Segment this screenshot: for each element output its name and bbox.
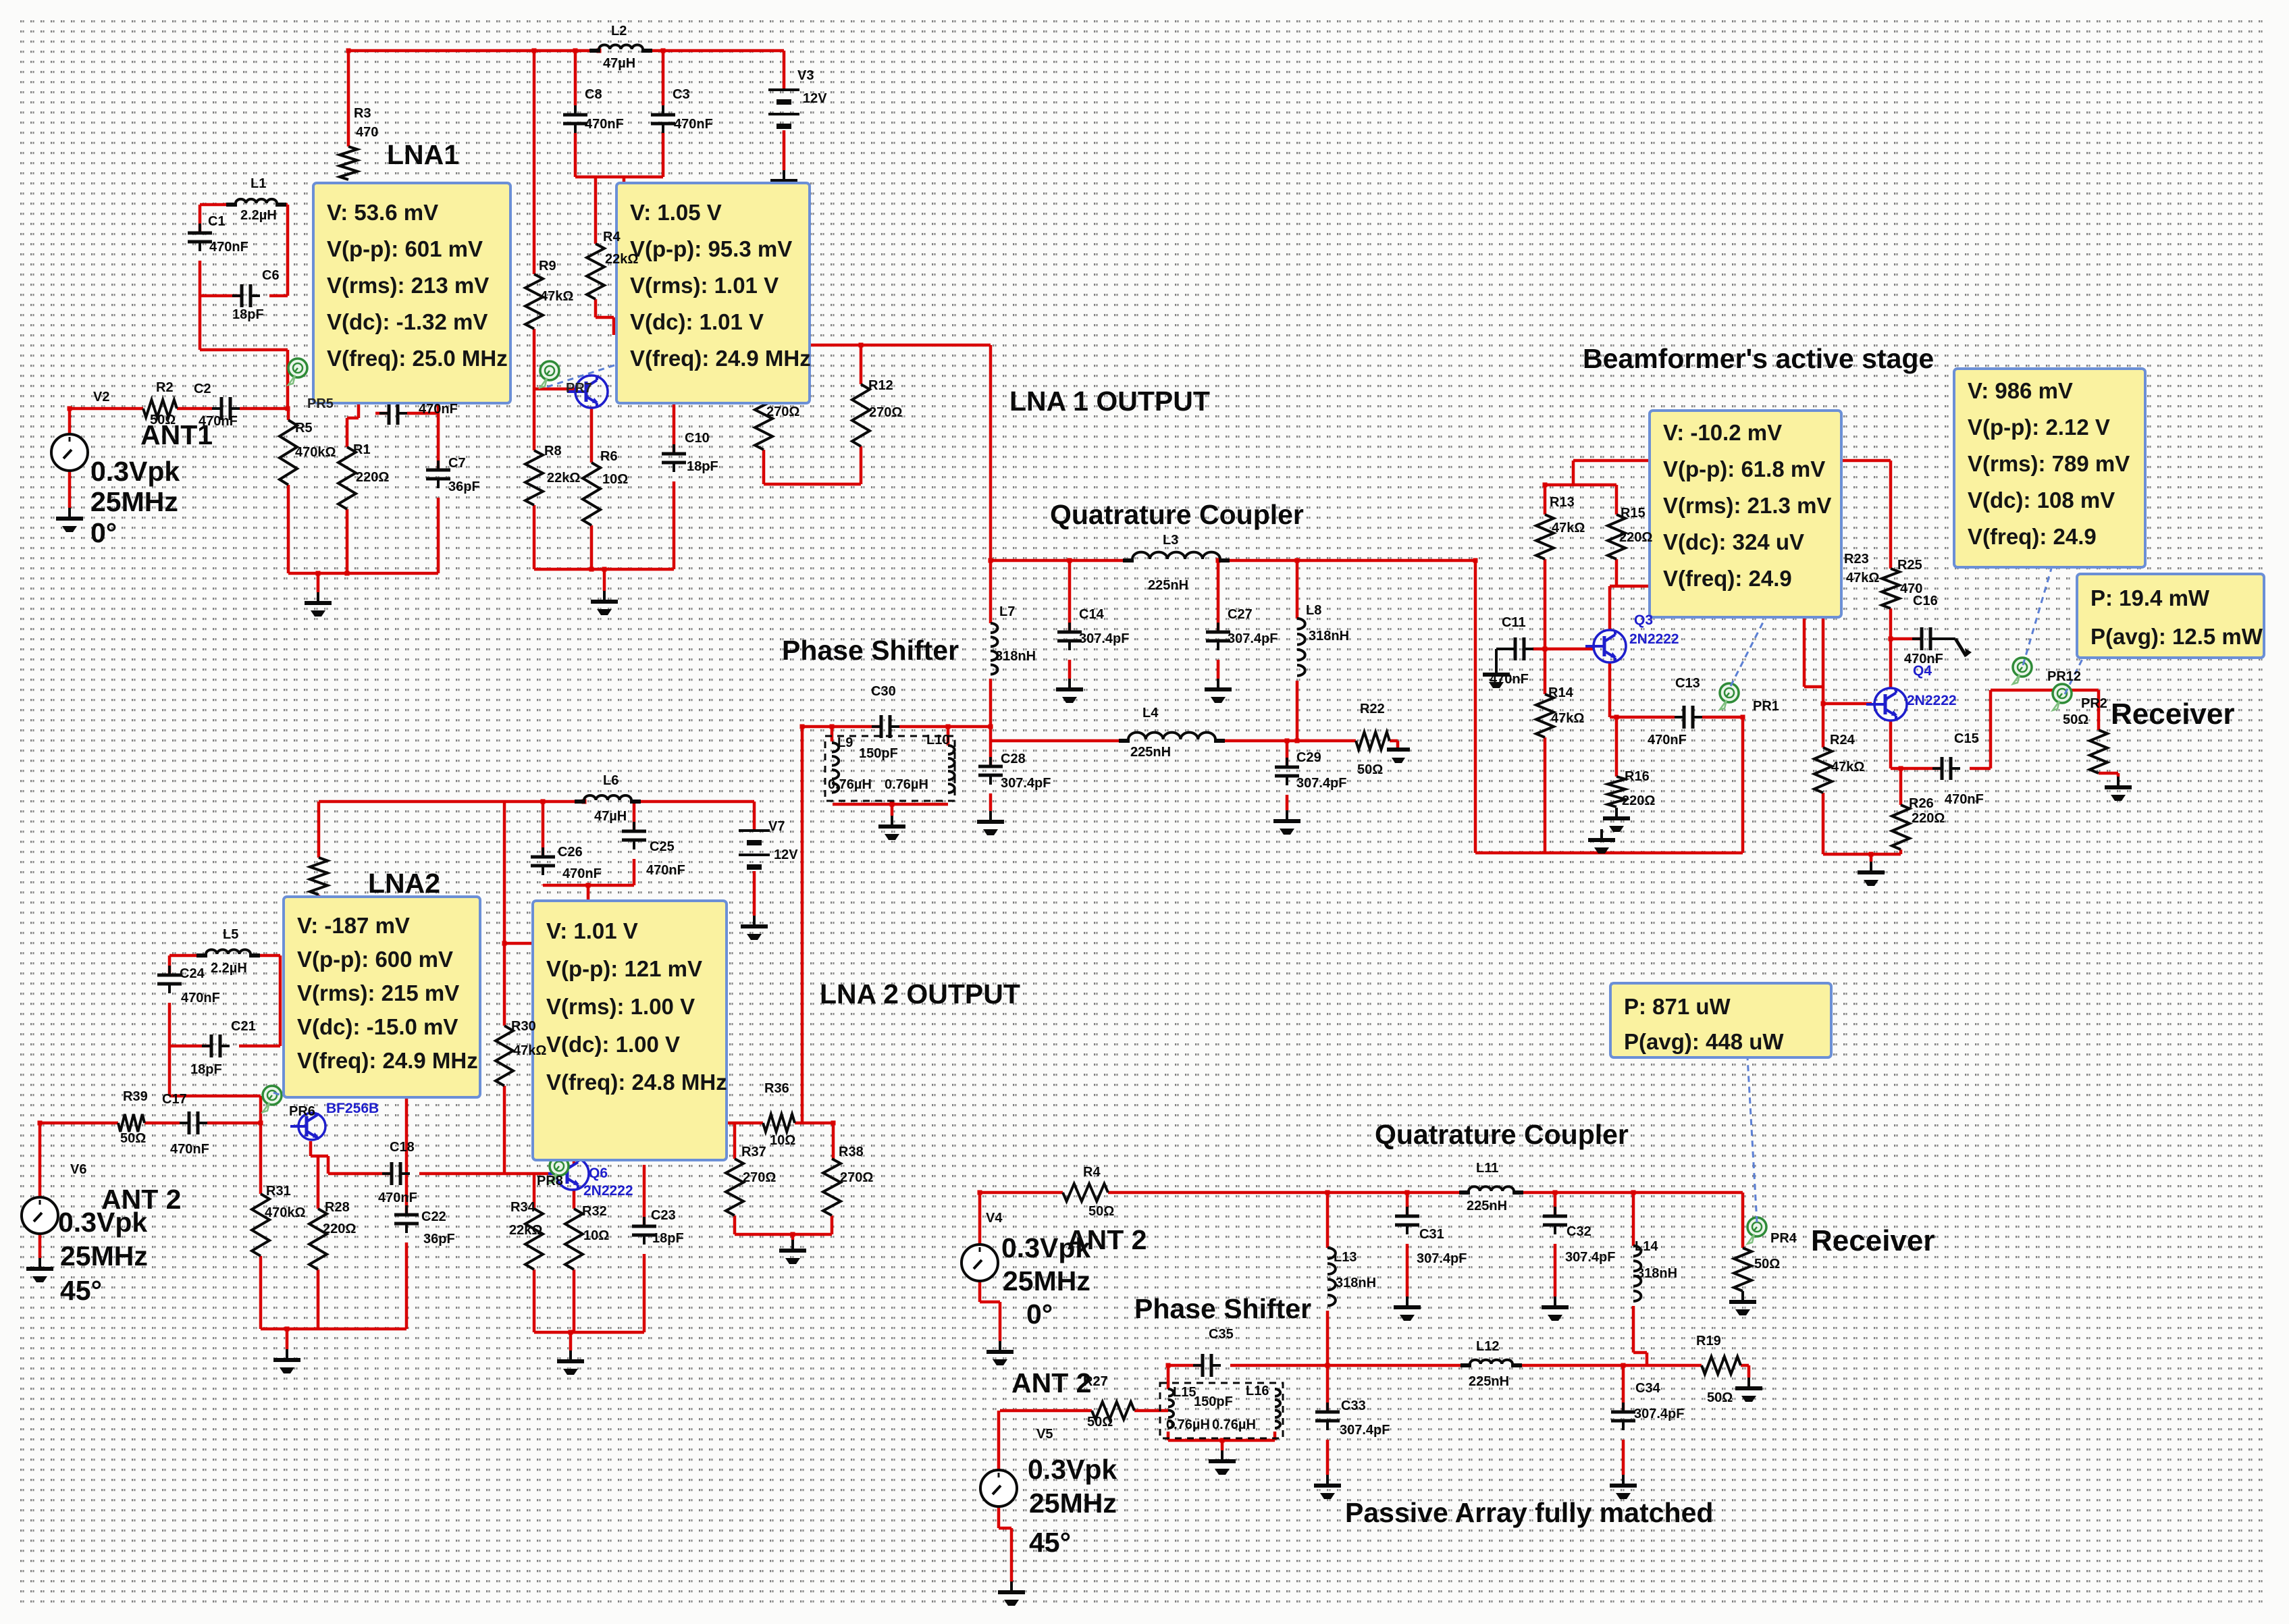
svg-text:R30: R30 [511, 1019, 536, 1034]
svg-text:PR1: PR1 [1753, 699, 1779, 714]
svg-text:Q3: Q3 [1634, 612, 1653, 628]
svg-text:V(dc): 1.00 V: V(dc): 1.00 V [546, 1032, 680, 1057]
svg-text:Phase Shifter: Phase Shifter [782, 635, 959, 666]
svg-text:0.3Vpk: 0.3Vpk [90, 456, 180, 487]
svg-text:25MHz: 25MHz [1003, 1265, 1090, 1296]
svg-text:V7: V7 [768, 819, 785, 834]
svg-text:V: 986 mV: V: 986 mV [1968, 378, 2073, 403]
svg-text:10Ω: 10Ω [770, 1133, 795, 1148]
svg-text:L8: L8 [1306, 603, 1321, 618]
svg-text:C16: C16 [1913, 594, 1938, 608]
svg-text:307.4pF: 307.4pF [1001, 776, 1051, 791]
svg-text:225nH: 225nH [1148, 578, 1188, 593]
svg-text:R5: R5 [295, 421, 313, 436]
svg-text:50Ω: 50Ω [1754, 1257, 1780, 1272]
svg-text:C32: C32 [1567, 1224, 1591, 1239]
svg-text:V: 1.05 V: V: 1.05 V [630, 200, 722, 225]
svg-text:50Ω: 50Ω [150, 413, 176, 427]
svg-text:470nF: 470nF [1648, 733, 1687, 748]
svg-text:C17: C17 [162, 1092, 187, 1107]
svg-text:307.4pF: 307.4pF [1565, 1250, 1615, 1265]
svg-text:22kΩ: 22kΩ [509, 1223, 542, 1238]
svg-text:V(dc): 1.01 V: V(dc): 1.01 V [630, 309, 764, 334]
svg-text:V(p-p): 601 mV: V(p-p): 601 mV [327, 236, 483, 261]
svg-text:12V: 12V [803, 91, 827, 106]
svg-text:150pF: 150pF [859, 746, 898, 761]
svg-text:318nH: 318nH [995, 649, 1036, 664]
svg-text:220Ω: 220Ω [323, 1222, 356, 1236]
svg-text:Beamformer's active stage: Beamformer's active stage [1583, 343, 1934, 374]
svg-text:22kΩ: 22kΩ [547, 471, 580, 486]
svg-text:150pF: 150pF [1194, 1394, 1233, 1409]
svg-text:470nF: 470nF [562, 866, 602, 881]
svg-text:Quatrature Coupler: Quatrature Coupler [1050, 499, 1304, 530]
svg-text:47kΩ: 47kΩ [1552, 521, 1585, 535]
svg-text:47kΩ: 47kΩ [1831, 760, 1864, 775]
svg-text:L2: L2 [611, 24, 627, 38]
svg-text:R24: R24 [1830, 733, 1856, 748]
svg-text:V5: V5 [1036, 1427, 1053, 1442]
svg-text:C33: C33 [1341, 1398, 1366, 1413]
svg-text:0.3Vpk: 0.3Vpk [58, 1207, 147, 1238]
svg-text:V(freq): 24.9 MHz: V(freq): 24.9 MHz [630, 346, 811, 371]
svg-text:R1: R1 [353, 442, 371, 457]
svg-text:V: 53.6 mV: V: 53.6 mV [327, 200, 438, 225]
svg-text:R34: R34 [510, 1200, 536, 1215]
svg-text:2.2µH: 2.2µH [240, 208, 277, 223]
svg-text:307.4pF: 307.4pF [1417, 1251, 1467, 1266]
svg-text:C24: C24 [180, 966, 205, 981]
svg-text:C1: C1 [208, 214, 226, 229]
svg-text:307.4pF: 307.4pF [1340, 1423, 1390, 1438]
svg-text:V(rms): 1.01 V: V(rms): 1.01 V [630, 273, 779, 298]
svg-text:318nH: 318nH [1309, 629, 1349, 644]
svg-text:C11: C11 [1502, 615, 1526, 630]
svg-text:R14: R14 [1548, 685, 1574, 700]
svg-text:C34: C34 [1635, 1381, 1661, 1396]
svg-text:0.76µH: 0.76µH [828, 777, 872, 792]
svg-text:12V: 12V [774, 847, 798, 862]
svg-text:Passive Array fully matched: Passive Array fully matched [1345, 1497, 1713, 1528]
svg-text:0.76µH: 0.76µH [1166, 1417, 1210, 1432]
svg-text:V(freq): 25.0 MHz: V(freq): 25.0 MHz [327, 346, 508, 371]
svg-text:C30: C30 [871, 684, 896, 699]
svg-text:25MHz: 25MHz [60, 1240, 148, 1272]
svg-text:36pF: 36pF [423, 1232, 455, 1247]
svg-text:L9: L9 [837, 735, 853, 750]
svg-text:V(rms): 21.3 mV: V(rms): 21.3 mV [1663, 493, 1831, 518]
svg-text:ANT 2: ANT 2 [1011, 1367, 1091, 1398]
svg-text:LNA 2 OUTPUT: LNA 2 OUTPUT [820, 978, 1020, 1010]
svg-text:225nH: 225nH [1130, 745, 1171, 760]
svg-text:470: 470 [356, 125, 378, 140]
svg-text:L1: L1 [251, 176, 266, 191]
svg-text:25MHz: 25MHz [90, 486, 178, 517]
svg-text:220Ω: 220Ω [1912, 811, 1945, 826]
svg-text:0°: 0° [90, 517, 117, 548]
svg-text:V(rms): 213 mV: V(rms): 213 mV [327, 273, 489, 298]
svg-text:L10: L10 [926, 733, 949, 748]
svg-text:BF256B: BF256B [326, 1101, 379, 1116]
svg-text:270Ω: 270Ω [766, 404, 799, 419]
svg-text:PR5: PR5 [307, 396, 334, 411]
svg-text:47µH: 47µH [594, 809, 627, 824]
svg-text:V(p-p): 61.8 mV: V(p-p): 61.8 mV [1663, 456, 1825, 481]
svg-text:0°: 0° [1026, 1299, 1053, 1330]
svg-text:307.4pF: 307.4pF [1296, 776, 1346, 791]
svg-text:307.4pF: 307.4pF [1228, 631, 1278, 646]
svg-text:2N2222: 2N2222 [583, 1183, 633, 1199]
svg-text:470nF: 470nF [646, 863, 685, 878]
svg-text:270Ω: 270Ω [869, 405, 902, 420]
svg-text:R15: R15 [1621, 506, 1646, 521]
svg-text:470nF: 470nF [674, 117, 713, 132]
svg-text:P: 19.4 mW: P: 19.4 mW [2090, 585, 2210, 610]
svg-text:318nH: 318nH [1637, 1266, 1677, 1281]
svg-text:R23: R23 [1844, 552, 1869, 567]
svg-text:C23: C23 [651, 1208, 676, 1223]
svg-text:V: 1.01 V: V: 1.01 V [546, 918, 638, 943]
svg-text:PR6: PR6 [289, 1104, 315, 1119]
svg-text:R36: R36 [764, 1081, 789, 1096]
svg-text:L4: L4 [1142, 706, 1159, 721]
svg-text:L16: L16 [1246, 1384, 1269, 1398]
svg-text:10Ω: 10Ω [583, 1228, 609, 1243]
svg-text:V(p-p): 2.12 V: V(p-p): 2.12 V [1968, 415, 2110, 440]
svg-text:R3: R3 [354, 106, 371, 121]
svg-text:V(dc): -1.32 mV: V(dc): -1.32 mV [327, 309, 488, 334]
svg-text:50Ω: 50Ω [1088, 1204, 1114, 1219]
svg-text:270Ω: 270Ω [743, 1170, 776, 1185]
svg-text:47kΩ: 47kΩ [1846, 571, 1879, 585]
svg-text:470nF: 470nF [1945, 792, 1984, 807]
svg-text:18pF: 18pF [190, 1062, 222, 1077]
svg-text:50Ω: 50Ω [1087, 1415, 1113, 1430]
svg-text:R16: R16 [1625, 769, 1650, 784]
svg-text:V(dc): 108 mV: V(dc): 108 mV [1968, 488, 2115, 513]
svg-text:47µH: 47µH [603, 56, 635, 71]
svg-text:47kΩ: 47kΩ [540, 289, 573, 304]
svg-text:C25: C25 [650, 839, 675, 854]
svg-text:50Ω: 50Ω [2063, 712, 2088, 727]
svg-text:PR12: PR12 [2047, 669, 2081, 684]
svg-text:R22: R22 [1360, 702, 1385, 716]
svg-text:C7: C7 [448, 456, 466, 471]
svg-text:Q6: Q6 [589, 1165, 608, 1181]
svg-text:C15: C15 [1954, 731, 1979, 746]
svg-text:220Ω: 220Ω [356, 470, 389, 485]
svg-text:18pF: 18pF [232, 307, 264, 322]
svg-text:45°: 45° [1029, 1527, 1071, 1558]
svg-text:C13: C13 [1675, 676, 1700, 691]
svg-text:47kΩ: 47kΩ [1551, 711, 1584, 726]
svg-text:V4: V4 [986, 1211, 1003, 1226]
svg-text:50Ω: 50Ω [1357, 762, 1383, 777]
svg-text:PR7: PR7 [566, 381, 592, 396]
svg-text:2N2222: 2N2222 [1629, 631, 1679, 647]
svg-text:Quatrature Coupler: Quatrature Coupler [1375, 1119, 1629, 1150]
svg-text:C22: C22 [421, 1209, 446, 1224]
svg-text:V(freq): 24.8 MHz: V(freq): 24.8 MHz [546, 1070, 727, 1095]
svg-text:V(dc): -15.0 mV: V(dc): -15.0 mV [297, 1014, 458, 1039]
svg-text:R12: R12 [868, 378, 893, 393]
svg-text:225nH: 225nH [1467, 1199, 1507, 1213]
svg-text:V(p-p): 95.3 mV: V(p-p): 95.3 mV [630, 236, 792, 261]
svg-text:470nF: 470nF [585, 117, 624, 132]
svg-text:0.3Vpk: 0.3Vpk [1028, 1454, 1117, 1485]
svg-text:47kΩ: 47kΩ [513, 1043, 546, 1058]
svg-text:R28: R28 [325, 1200, 350, 1215]
svg-text:C3: C3 [673, 87, 690, 102]
svg-text:Receiver: Receiver [2111, 698, 2234, 731]
svg-text:Q4: Q4 [1913, 663, 1932, 679]
svg-text:R4: R4 [603, 230, 621, 244]
svg-text:R39: R39 [123, 1089, 148, 1104]
svg-text:V(p-p): 600 mV: V(p-p): 600 mV [297, 947, 453, 972]
svg-text:V(p-p): 121 mV: V(p-p): 121 mV [546, 956, 702, 981]
svg-text:R25: R25 [1897, 558, 1922, 573]
svg-text:318nH: 318nH [1336, 1276, 1376, 1290]
svg-text:470nF: 470nF [419, 402, 458, 417]
svg-text:L13: L13 [1334, 1250, 1357, 1265]
svg-text:R2: R2 [156, 380, 174, 395]
svg-text:0.3Vpk: 0.3Vpk [1001, 1232, 1090, 1263]
svg-text:C21: C21 [231, 1019, 256, 1034]
svg-text:C28: C28 [1001, 752, 1026, 766]
svg-text:C10: C10 [685, 431, 710, 446]
svg-text:PR8: PR8 [537, 1174, 563, 1188]
svg-text:R13: R13 [1550, 495, 1575, 510]
svg-text:2.2µH: 2.2µH [211, 961, 247, 976]
svg-text:470kΩ: 470kΩ [295, 445, 336, 460]
svg-text:LNA 1 OUTPUT: LNA 1 OUTPUT [1009, 386, 1210, 417]
svg-text:L12: L12 [1476, 1339, 1499, 1354]
svg-text:V(dc): 324 uV: V(dc): 324 uV [1663, 529, 1804, 554]
svg-text:50Ω: 50Ω [120, 1131, 146, 1146]
svg-text:220Ω: 220Ω [1619, 530, 1652, 545]
svg-text:0.76µH: 0.76µH [885, 777, 928, 792]
svg-text:470nF: 470nF [378, 1190, 417, 1205]
svg-text:LNA2: LNA2 [368, 868, 440, 899]
svg-text:R32: R32 [582, 1204, 607, 1219]
svg-text:P(avg): 12.5 mW: P(avg): 12.5 mW [2090, 624, 2263, 649]
svg-text:470nF: 470nF [209, 240, 248, 255]
svg-text:R37: R37 [741, 1145, 766, 1159]
svg-text:25MHz: 25MHz [1029, 1488, 1117, 1519]
svg-text:45°: 45° [60, 1275, 102, 1306]
svg-text:L14: L14 [1635, 1239, 1658, 1254]
svg-text:L15: L15 [1173, 1385, 1196, 1400]
svg-text:Phase Shifter: Phase Shifter [1134, 1293, 1311, 1324]
svg-text:18pF: 18pF [652, 1231, 684, 1246]
svg-text:2N2222: 2N2222 [1907, 693, 1957, 708]
svg-text:470kΩ: 470kΩ [265, 1205, 306, 1220]
svg-text:R27: R27 [1083, 1374, 1108, 1389]
svg-text:C29: C29 [1296, 750, 1321, 765]
svg-text:R4: R4 [1083, 1165, 1101, 1180]
svg-text:220Ω: 220Ω [1622, 793, 1655, 808]
svg-text:18pF: 18pF [687, 459, 718, 474]
svg-text:V(rms): 1.00 V: V(rms): 1.00 V [546, 994, 695, 1019]
svg-text:R31: R31 [266, 1184, 291, 1199]
svg-text:22kΩ: 22kΩ [605, 252, 638, 267]
svg-text:50Ω: 50Ω [1707, 1390, 1733, 1405]
svg-text:307.4pF: 307.4pF [1634, 1407, 1684, 1421]
svg-text:V(freq): 24.9: V(freq): 24.9 [1663, 566, 1792, 591]
svg-text:R8: R8 [544, 444, 562, 459]
svg-text:V: -187 mV: V: -187 mV [297, 913, 410, 938]
svg-text:C26: C26 [558, 845, 583, 860]
svg-text:L6: L6 [603, 773, 619, 788]
svg-text:470nF: 470nF [1490, 672, 1529, 687]
svg-text:470nF: 470nF [199, 414, 238, 429]
svg-text:R19: R19 [1696, 1334, 1721, 1348]
svg-text:C2: C2 [194, 382, 211, 396]
svg-text:C35: C35 [1209, 1327, 1234, 1342]
svg-text:V2: V2 [93, 390, 109, 404]
svg-text:C27: C27 [1228, 607, 1253, 622]
svg-text:P(avg): 448 uW: P(avg): 448 uW [1624, 1029, 1784, 1054]
svg-text:C14: C14 [1079, 607, 1105, 622]
svg-text:470nF: 470nF [181, 991, 220, 1005]
svg-text:R9: R9 [539, 259, 556, 273]
svg-text:P: 871 uW: P: 871 uW [1624, 994, 1731, 1019]
svg-text:470nF: 470nF [170, 1142, 209, 1157]
svg-text:L11: L11 [1476, 1161, 1498, 1176]
svg-text:Receiver: Receiver [1811, 1224, 1935, 1257]
svg-text:307.4pF: 307.4pF [1079, 631, 1129, 646]
svg-text:C8: C8 [585, 87, 602, 102]
svg-text:PR4: PR4 [1770, 1231, 1797, 1246]
svg-text:R26: R26 [1909, 796, 1934, 811]
svg-text:R6: R6 [600, 449, 618, 464]
svg-text:L7: L7 [999, 604, 1015, 619]
svg-text:C18: C18 [390, 1140, 415, 1155]
svg-text:V(freq): 24.9 MHz: V(freq): 24.9 MHz [297, 1048, 478, 1073]
svg-text:C6: C6 [262, 268, 280, 283]
svg-text:V(rms): 215 mV: V(rms): 215 mV [297, 980, 459, 1005]
svg-text:V: -10.2 mV: V: -10.2 mV [1663, 420, 1782, 445]
svg-text:PR2: PR2 [2081, 696, 2107, 711]
svg-text:V(freq): 24.9: V(freq): 24.9 [1968, 524, 2097, 549]
svg-text:10Ω: 10Ω [602, 472, 628, 487]
svg-text:L3: L3 [1163, 533, 1178, 548]
svg-text:C31: C31 [1419, 1227, 1444, 1242]
svg-text:36pF: 36pF [448, 479, 480, 494]
svg-text:V3: V3 [797, 68, 814, 83]
svg-text:V(rms): 789 mV: V(rms): 789 mV [1968, 451, 2130, 476]
svg-text:R38: R38 [839, 1145, 864, 1159]
svg-text:LNA1: LNA1 [387, 139, 459, 170]
svg-text:225nH: 225nH [1469, 1374, 1509, 1389]
svg-text:0.76µH: 0.76µH [1212, 1417, 1256, 1432]
svg-text:270Ω: 270Ω [840, 1170, 873, 1185]
svg-text:V6: V6 [70, 1162, 86, 1177]
svg-text:L5: L5 [223, 927, 238, 942]
